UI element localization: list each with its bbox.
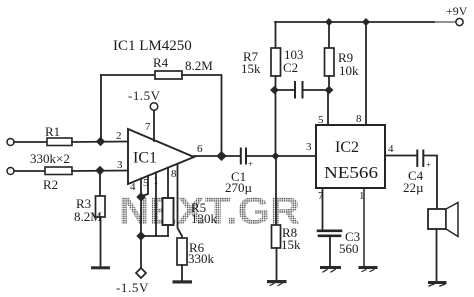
resistor R7 (271, 48, 281, 76)
wire IC2 pin4 output (385, 155, 416, 157)
wire input pin3 (14, 170, 45, 172)
wire op-amp pin4 down (140, 179, 142, 269)
wire op-amp pin1 down (155, 173, 157, 237)
svg-text:2: 2 (116, 130, 122, 142)
ground C3 (320, 266, 341, 272)
svg-text:NE566: NE566 (324, 163, 378, 182)
svg-text:5: 5 (143, 177, 149, 189)
svg-text:+: + (248, 159, 253, 169)
capacitor C3 (318, 231, 341, 236)
svg-text:10k: 10k (339, 63, 359, 78)
resistor R5 (163, 198, 174, 225)
IC2 NE566 box (316, 125, 385, 188)
svg-text:330k: 330k (188, 251, 215, 266)
capacitor C4 (417, 151, 423, 167)
wire C4 to speaker (424, 156, 437, 210)
terminal +1.5V (150, 103, 158, 111)
svg-text:IC2: IC2 (335, 139, 359, 156)
wire R3 bottom lead (100, 217, 102, 266)
wire op-amp output pin6 (194, 155, 240, 157)
node junction pin4-R5 (136, 231, 145, 240)
wire IC2 pin1 down (363, 188, 365, 266)
svg-text:330k×2: 330k×2 (30, 151, 70, 166)
svg-text:1: 1 (153, 175, 159, 187)
svg-text:6: 6 (197, 143, 203, 155)
terminal input 1 (7, 139, 14, 146)
svg-text:22µ: 22µ (403, 180, 424, 195)
wire op-amp pin5 down (142, 176, 148, 196)
ground IC2 pin1 (359, 266, 378, 269)
svg-text:5: 5 (318, 114, 324, 126)
terminal +9V (456, 18, 463, 25)
wire R8 bottom lead (276, 248, 278, 280)
svg-text:15k: 15k (241, 61, 261, 76)
wire C3 to ground (329, 237, 331, 266)
wire R5 top lead (167, 168, 169, 198)
ground R6 (173, 280, 193, 283)
node junction pin4-pin5 (136, 192, 145, 201)
node junction pin2 (96, 137, 106, 146)
svg-text:R4: R4 (153, 55, 169, 70)
wire R1 to pin2 (72, 141, 128, 144)
resistor R4 (155, 71, 182, 79)
wire feedback left vertical (100, 75, 102, 141)
wire R6 bottom lead (181, 265, 183, 280)
op-amp U1 triangle (128, 129, 194, 184)
terminal -1.5V (136, 268, 146, 278)
node junction R9-C2 (325, 86, 334, 94)
wire R2 to pin3 (72, 170, 128, 173)
resistor R1 (47, 138, 72, 146)
wire R4 left lead (101, 74, 155, 76)
wire IC2 pin7 down (322, 188, 324, 229)
svg-text:4: 4 (130, 181, 136, 193)
wire rail to +9V terminal (434, 21, 456, 23)
svg-text:IC1 LM4250: IC1 LM4250 (113, 38, 192, 54)
terminal input 2 (7, 168, 14, 175)
wire R7 top lead (275, 22, 277, 48)
capacitor C1 (241, 149, 246, 164)
wire C1 to IC2 pin3 (247, 155, 316, 157)
speaker LS (428, 203, 458, 237)
svg-text:8: 8 (356, 113, 362, 125)
svg-text:R1: R1 (45, 124, 60, 139)
node junction rail-pin8 (362, 18, 370, 26)
ground speaker (428, 281, 447, 286)
svg-text:-1.5V: -1.5V (128, 88, 161, 103)
svg-text:+9V: +9V (446, 4, 468, 18)
wire R5 bottom lead (167, 225, 169, 236)
wire speaker to ground (436, 229, 438, 281)
capacitor C2 (279, 82, 325, 98)
svg-text:1: 1 (359, 190, 365, 202)
wire R7 bottom lead (275, 76, 277, 90)
svg-text:130k: 130k (191, 211, 218, 226)
resistor R3 (96, 196, 106, 217)
svg-text:4: 4 (388, 143, 394, 155)
wire rail to IC2 pin 8 (365, 22, 367, 125)
svg-text:7: 7 (318, 190, 324, 202)
svg-text:-1.5V: -1.5V (116, 280, 149, 295)
wire input pin2 (14, 141, 47, 143)
node junction rail-R9 (325, 18, 333, 26)
svg-text:C2: C2 (283, 60, 298, 75)
ground R8 (267, 280, 287, 283)
node junction pin3 (95, 166, 105, 175)
wire R3 top lead (99, 171, 101, 196)
wire top supply rail (275, 21, 434, 23)
wire op-amp pin8 to R6 (178, 164, 183, 238)
svg-text:3: 3 (117, 159, 123, 171)
wire R9 top lead (328, 22, 330, 48)
svg-text:R2: R2 (43, 177, 58, 192)
resistor R8 (272, 225, 281, 248)
wire R9 node to IC2 pin 5 (327, 90, 329, 125)
wire R9 bottom lead (328, 76, 330, 90)
wire R7 node down to signal node (275, 90, 277, 156)
svg-text:+: + (426, 160, 431, 170)
node junction output (216, 151, 227, 161)
svg-text:3: 3 (306, 141, 312, 153)
svg-text:270µ: 270µ (225, 180, 253, 195)
svg-text:8.2M: 8.2M (185, 58, 213, 73)
resistor R6 (177, 238, 187, 265)
svg-text:8: 8 (171, 168, 177, 180)
svg-text:560: 560 (339, 241, 359, 256)
wire pin7 supply lead (153, 111, 155, 142)
resistor R2 (45, 167, 72, 175)
node junction R7-C2 (270, 86, 279, 94)
node junction C1-R8 (272, 152, 280, 160)
svg-text:7: 7 (145, 121, 151, 133)
svg-text:8.2M: 8.2M (74, 209, 102, 224)
svg-text:15k: 15k (281, 237, 301, 252)
svg-text:IC1: IC1 (133, 150, 157, 167)
wire bottom tie pin4-pin1-R5 (141, 235, 168, 237)
wire R8 top lead (275, 156, 277, 225)
ground R3 termination bar (91, 266, 110, 269)
resistor R9 (325, 48, 335, 76)
wire R4 right lead to output node (182, 75, 222, 156)
